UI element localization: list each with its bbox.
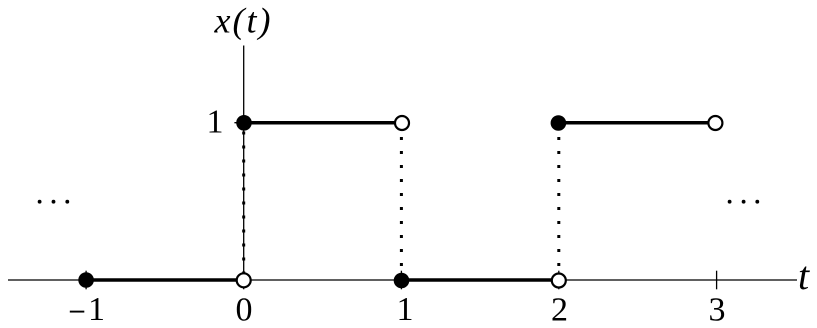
segment x=1 on [0,1)	[244, 121, 395, 125]
svg-text:3: 3	[709, 292, 726, 328]
svg-text:1: 1	[207, 104, 224, 141]
tick at t=0	[243, 271, 245, 290]
dotted drop line at t=2	[557, 137, 560, 272]
x-axis (t axis)	[8, 279, 797, 281]
open point at (0,0)	[237, 273, 251, 287]
open point at (2,0)	[552, 274, 566, 288]
svg-text:1: 1	[397, 291, 414, 328]
tick at t=3	[716, 271, 718, 290]
segment x=1 on [2,3)	[559, 121, 709, 125]
svg-text:0: 0	[236, 292, 253, 328]
left ellipsis	[38, 200, 70, 204]
filled point at (0,1)	[236, 115, 252, 131]
dotted drop line at t=1	[400, 137, 403, 272]
svg-text:2: 2	[551, 292, 568, 328]
label -1 minus sign	[70, 311, 85, 313]
filled point at (-1,0)	[78, 272, 94, 288]
svg-text:x(t): x(t)	[214, 1, 273, 41]
tick at value 1 on y-axis	[234, 122, 253, 124]
open point at (1,1)	[395, 116, 409, 130]
segment x=0 on [-1,0)	[86, 278, 237, 282]
dotted drop line at t=0	[242, 132, 245, 275]
open point at (3,1)	[708, 116, 722, 130]
tick at t=-1	[85, 271, 87, 290]
filled point at (2,1)	[551, 115, 567, 131]
y-axis (vertical at t=0)	[243, 46, 245, 281]
tick at t=2	[558, 271, 560, 290]
filled point at (1,0)	[394, 273, 410, 289]
segment x=0 on [1,2)	[401, 278, 552, 282]
svg-text:1: 1	[88, 291, 105, 328]
right ellipsis	[728, 200, 760, 204]
tick at t=1	[400, 271, 402, 290]
svg-text:t: t	[798, 253, 810, 298]
